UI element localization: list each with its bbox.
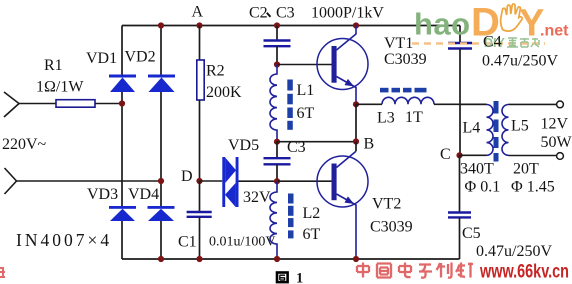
svg-text:32V: 32V	[243, 189, 271, 206]
junction VT1 base node	[274, 61, 280, 67]
watermark china maker site hanzi	[357, 263, 473, 278]
wire VD2 anode to AC2 junction to VD4	[160, 92, 162, 206]
wire R2 to node D	[199, 100, 201, 181]
capacitor C4	[448, 43, 472, 49]
junction VD2 top rail	[158, 22, 164, 28]
svg-text:VD2: VD2	[125, 49, 156, 66]
svg-text:50W: 50W	[541, 134, 572, 151]
junction VT2 base node	[274, 178, 280, 184]
wire input1 to R1	[19, 103, 56, 105]
wire base node to VT2	[277, 180, 332, 182]
svg-text:C: C	[440, 146, 451, 163]
junction VD4 bottom rail	[158, 256, 164, 262]
wire left rail upper segment	[121, 26, 123, 75]
watermark slogan hanzi 真有趣	[507, 38, 539, 47]
junction VT1 collector top rail	[353, 22, 359, 28]
wire emitter node to L3	[356, 103, 382, 105]
svg-text:.net: .net	[540, 23, 569, 40]
node C	[456, 152, 462, 158]
svg-text:A: A	[192, 4, 204, 21]
output terminal top	[557, 101, 564, 108]
inductor L1	[270, 65, 277, 142]
svg-text:1: 1	[296, 271, 303, 284]
svg-text:C3039: C3039	[370, 219, 413, 236]
wire C4 column to node C	[459, 104, 461, 155]
svg-text:C5: C5	[462, 225, 481, 242]
wire B to VT2 collector	[355, 142, 357, 152]
label C2 C3	[249, 5, 295, 22]
svg-text:1Ω/1W: 1Ω/1W	[36, 79, 84, 96]
wire VD5 to base node	[239, 180, 278, 182]
svg-text:VT1: VT1	[384, 35, 413, 52]
diode VD1	[109, 75, 136, 93]
svg-text:VT2: VT2	[372, 196, 401, 213]
capacitor C2	[264, 41, 291, 47]
wire top rail corner down to C4	[459, 26, 461, 44]
svg-text:220V~: 220V~	[2, 136, 47, 153]
wire L4 top to junction	[460, 103, 487, 105]
svg-text:200K: 200K	[206, 84, 242, 101]
wire base node to VT1	[277, 64, 332, 66]
svg-text:C1: C1	[178, 234, 197, 251]
winding L4	[487, 105, 494, 156]
junction AC2/VD2/VD4	[158, 178, 164, 184]
wire bottom rail	[122, 258, 460, 260]
wire R1 to bridge node	[95, 103, 122, 105]
inductor L3	[382, 97, 434, 104]
wire node to B	[277, 141, 356, 143]
capacitor C3	[264, 158, 291, 164]
junction VT2 emitter bottom rail	[353, 256, 359, 262]
watermark left edge fragment	[0, 268, 5, 277]
output terminal bottom	[557, 153, 564, 160]
svg-text:0.47u/250V: 0.47u/250V	[476, 243, 552, 260]
node D	[196, 178, 202, 184]
node A	[196, 22, 202, 28]
wire C2 to VT1 base node	[276, 46, 278, 64]
svg-text:VD3: VD3	[87, 186, 118, 203]
svg-text:0.01u/100V: 0.01u/100V	[209, 235, 276, 250]
node B	[353, 138, 359, 144]
svg-text:VD1: VD1	[86, 50, 117, 67]
wire C4 to L3 junction	[459, 49, 461, 105]
svg-text:C4: C4	[483, 34, 502, 51]
winding L5	[502, 105, 508, 156]
watermark dashed underline	[412, 42, 545, 45]
svg-text:340T: 340T	[460, 161, 494, 178]
junction L1/C3/B-wire	[274, 139, 280, 145]
svg-text:C3: C3	[276, 5, 295, 22]
svg-text:B: B	[364, 136, 375, 153]
transistor VT2	[317, 151, 368, 259]
svg-text:www.66kv.cn: www.66kv.cn	[479, 262, 569, 283]
wire D to C1	[199, 181, 201, 212]
AC input terminal 1	[4, 92, 19, 117]
svg-text:R1: R1	[44, 57, 63, 74]
svg-text:1T: 1T	[405, 109, 423, 126]
svg-text:L1: L1	[297, 82, 315, 99]
wire VD4 anode to bottom rail	[160, 221, 162, 259]
svg-text:R2: R2	[206, 63, 225, 80]
svg-text:L4: L4	[463, 120, 481, 137]
capacitor C1	[187, 212, 212, 217]
svg-text:VD5: VD5	[228, 137, 259, 154]
diode VD3	[109, 206, 136, 221]
svg-text:Φ 0.1: Φ 0.1	[465, 179, 501, 196]
svg-text:C2: C2	[249, 5, 268, 22]
wire B column	[355, 104, 357, 141]
svg-text:0.47u/250V: 0.47u/250V	[482, 53, 558, 70]
wire VD3 anode to bottom rail corner	[121, 221, 123, 259]
inductor L2	[270, 181, 277, 259]
svg-text:VD4: VD4	[128, 186, 159, 203]
core of L1	[287, 80, 293, 130]
figure caption glyph 图	[277, 273, 288, 283]
svg-text:C3: C3	[287, 139, 306, 156]
core of L3	[380, 88, 427, 93]
wire to C3	[276, 142, 278, 159]
svg-text:6T: 6T	[297, 105, 315, 122]
resistor R2	[197, 60, 204, 100]
svg-text:12V: 12V	[541, 116, 569, 133]
junction C1 bottom rail	[196, 256, 202, 262]
wire L3 to C4 column	[434, 103, 487, 105]
junction VT1 emitter / L3	[353, 101, 359, 107]
junction L2 bottom rail	[274, 256, 280, 262]
wire C3 to VT2 base node	[276, 164, 278, 181]
svg-text:6T: 6T	[303, 226, 321, 243]
junction C2 top rail	[274, 22, 280, 28]
wire node C to L4 bottom	[460, 154, 487, 156]
wire top rail	[122, 25, 460, 27]
svg-text:L3: L3	[377, 110, 395, 127]
transistor VT1	[317, 26, 368, 105]
wire input2 to VD2/VD4 node	[17, 180, 162, 182]
svg-text:L2: L2	[303, 205, 321, 222]
svg-text:IN4007×4: IN4007×4	[16, 230, 112, 250]
junction R1/VD1/VD3	[119, 100, 125, 106]
wire D to VD5	[200, 180, 223, 182]
svg-text:L5: L5	[511, 118, 529, 135]
core of L2	[288, 194, 294, 239]
core of transformer L4/L5	[494, 101, 499, 162]
wire node C to C5	[459, 155, 461, 212]
svg-text:hao: hao	[414, 7, 471, 42]
wire C5 to bottom rail	[459, 217, 461, 259]
diode VD4	[148, 206, 175, 221]
wire VD2 column upper	[160, 26, 162, 75]
wire L5 bottom to output	[509, 155, 557, 157]
AC input terminal 2	[5, 168, 17, 194]
wire C1 to bottom rail	[199, 217, 201, 259]
svg-text:Φ 1.45: Φ 1.45	[511, 179, 555, 196]
watermark logo hand	[501, 4, 523, 31]
capacitor C5	[448, 213, 471, 218]
wire VD1 anode down through R1 junction to VD3	[121, 92, 123, 206]
wire L5 top to output	[509, 103, 557, 105]
svg-text:C3039: C3039	[384, 51, 427, 68]
wire A to R2	[199, 26, 201, 61]
wire top rail to C2	[276, 26, 278, 41]
diode VD2	[148, 75, 175, 93]
svg-text:20T: 20T	[513, 161, 539, 178]
resistor R1	[56, 100, 95, 108]
diac VD5	[222, 157, 238, 207]
svg-text:D: D	[181, 168, 193, 185]
svg-text:1000P/1kV: 1000P/1kV	[311, 5, 384, 22]
